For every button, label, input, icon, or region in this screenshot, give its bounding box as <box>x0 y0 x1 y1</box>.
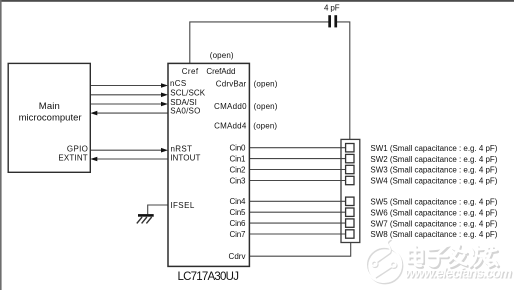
svg-text:Cin0: Cin0 <box>230 144 247 153</box>
svg-text:CMAdd0: CMAdd0 <box>214 102 247 111</box>
svg-text:Cin1: Cin1 <box>230 154 247 163</box>
svg-text:SDA/SI: SDA/SI <box>170 98 197 107</box>
svg-text:Cref: Cref <box>182 67 199 76</box>
svg-text:nRST: nRST <box>171 145 193 154</box>
svg-text:Cdrv: Cdrv <box>229 252 246 261</box>
svg-text:Cin4: Cin4 <box>230 197 247 206</box>
svg-text:SW5 (Small capacitance : e.g.: SW5 (Small capacitance : e.g. 4 pF) <box>370 198 497 207</box>
svg-text:nCS: nCS <box>170 79 186 88</box>
svg-text:CMAdd4: CMAdd4 <box>214 122 247 131</box>
svg-text:Main: Main <box>39 101 60 112</box>
svg-text:(open): (open) <box>254 79 278 88</box>
svg-text:(open): (open) <box>210 51 234 60</box>
svg-text:www.elecfans.com: www.elecfans.com <box>405 265 512 280</box>
svg-text:(open): (open) <box>253 122 277 131</box>
svg-text:EXTINT: EXTINT <box>58 153 87 162</box>
svg-text:IFSEL: IFSEL <box>170 201 195 210</box>
svg-text:Cin6: Cin6 <box>230 219 247 228</box>
svg-text:Cin3: Cin3 <box>230 176 247 185</box>
svg-text:SW1 (Small capacitance : e.g.: SW1 (Small capacitance : e.g. 4 pF) <box>370 144 497 153</box>
svg-text:SW3 (Small capacitance : e.g.: SW3 (Small capacitance : e.g. 4 pF) <box>370 166 497 175</box>
svg-text:LC717A30UJ: LC717A30UJ <box>177 271 239 283</box>
svg-text:SW7 (Small capacitance : e.g.: SW7 (Small capacitance : e.g. 4 pF) <box>370 219 497 228</box>
svg-text:SW4 (Small capacitance : e.g.: SW4 (Small capacitance : e.g. 4 pF) <box>370 177 497 186</box>
svg-text:CdrvBar: CdrvBar <box>216 79 247 88</box>
svg-text:GPIO: GPIO <box>67 144 88 153</box>
svg-text:SW8 (Small capacitance : e.g.: SW8 (Small capacitance : e.g. 4 pF) <box>370 230 497 239</box>
svg-text:SW6 (Small capacitance : e.g.: SW6 (Small capacitance : e.g. 4 pF) <box>370 208 497 217</box>
svg-text:SA0/SO: SA0/SO <box>170 107 200 116</box>
svg-text:Cin5: Cin5 <box>230 208 247 217</box>
svg-text:Cin2: Cin2 <box>230 165 247 174</box>
svg-text:microcomputer: microcomputer <box>19 113 82 124</box>
svg-text:Cin7: Cin7 <box>230 230 247 239</box>
svg-text:(open): (open) <box>254 102 278 111</box>
svg-text:SW2 (Small capacitance : e.g.: SW2 (Small capacitance : e.g. 4 pF) <box>370 155 497 164</box>
svg-text:INTOUT: INTOUT <box>170 153 200 162</box>
svg-text:SCL/SCK: SCL/SCK <box>170 89 205 98</box>
svg-text:4 pF: 4 pF <box>324 4 340 13</box>
svg-text:CrefAdd: CrefAdd <box>206 67 235 76</box>
